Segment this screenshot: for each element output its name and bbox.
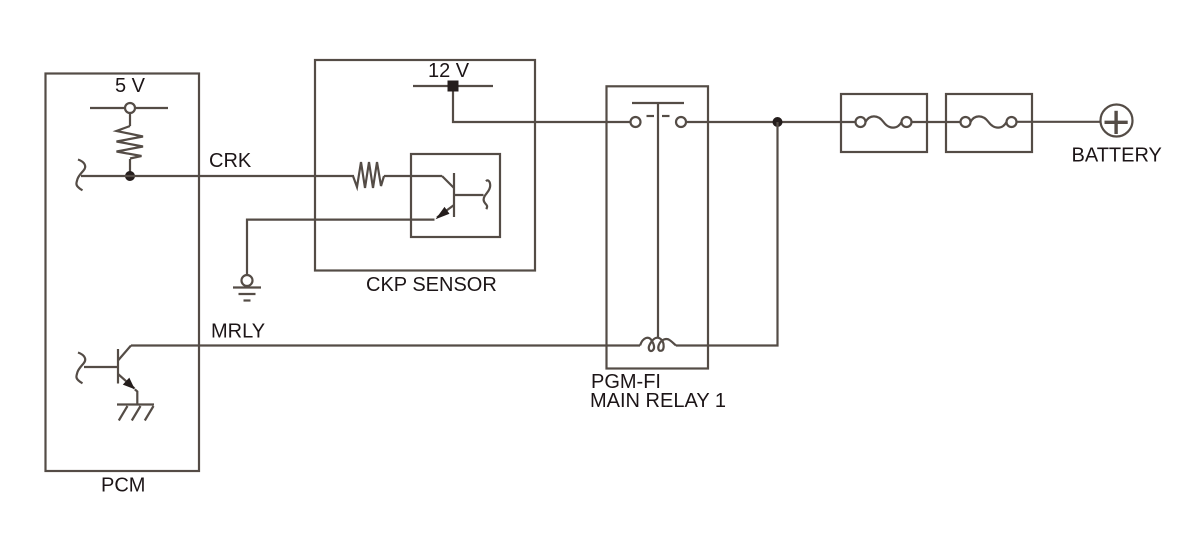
junction node dot <box>773 117 783 127</box>
12V supply bar <box>413 85 493 87</box>
wire CRK <box>81 175 354 177</box>
fuse box F1 <box>841 94 927 152</box>
relay armature bar <box>632 102 684 104</box>
resistor R2 (sensor series) <box>353 162 384 188</box>
fuse F1 element <box>856 116 912 127</box>
connector pin squiggle (CRK) <box>76 160 85 191</box>
wire 12V down <box>453 92 631 123</box>
wire resistor to transistor <box>384 175 442 177</box>
PGM-FI MAIN RELAY 1 box <box>607 86 709 368</box>
ground G1 (sensor ground) <box>233 275 261 301</box>
svg-text:CKP SENSOR: CKP SENSOR <box>366 274 497 296</box>
wire MRLY <box>131 344 640 346</box>
wire junction down to coil <box>676 122 778 346</box>
wire F2 to battery <box>1017 121 1101 123</box>
svg-text:PCM: PCM <box>101 475 145 497</box>
inner transistor box <box>411 154 500 237</box>
relay contact circle right <box>676 117 686 127</box>
node CRK junction dot <box>125 171 135 181</box>
relay plunger line <box>657 103 659 338</box>
PCM box <box>46 74 200 472</box>
wire resistor to node <box>129 159 131 176</box>
relay contact dashes <box>647 115 655 117</box>
chassis ground G2 <box>117 405 154 421</box>
svg-text:CRK: CRK <box>209 150 252 172</box>
5V supply bar <box>90 107 168 109</box>
relay contact circle left <box>631 117 641 127</box>
fuse box F2 <box>946 94 1032 152</box>
transistor Q2 (PCM MRLY driver) <box>84 346 137 404</box>
wire emitter to ground <box>247 220 435 275</box>
svg-text:12 V: 12 V <box>428 60 470 82</box>
resistor R1 (pull-up) <box>117 126 144 159</box>
svg-text:BATTERY: BATTERY <box>1072 145 1162 167</box>
battery terminal B+ <box>1101 105 1133 137</box>
svg-text:MAIN RELAY 1: MAIN RELAY 1 <box>590 390 726 412</box>
wire F1 to F2 <box>912 121 961 123</box>
base pickup squiggle <box>484 180 491 209</box>
relay coil L1 <box>640 338 676 351</box>
svg-text:MRLY: MRLY <box>211 321 265 343</box>
CKP SENSOR box <box>315 60 535 271</box>
wire contact to junction <box>686 121 856 123</box>
connector pin squiggle (MRLY driver base) <box>76 353 85 384</box>
transistor Q1 (sensor output) <box>436 173 484 219</box>
5V terminal circle <box>125 103 135 113</box>
wire 5V to resistor <box>129 113 131 126</box>
12V terminal square <box>448 81 459 92</box>
svg-text:5 V: 5 V <box>115 75 146 97</box>
fuse F2 element <box>961 116 1017 127</box>
